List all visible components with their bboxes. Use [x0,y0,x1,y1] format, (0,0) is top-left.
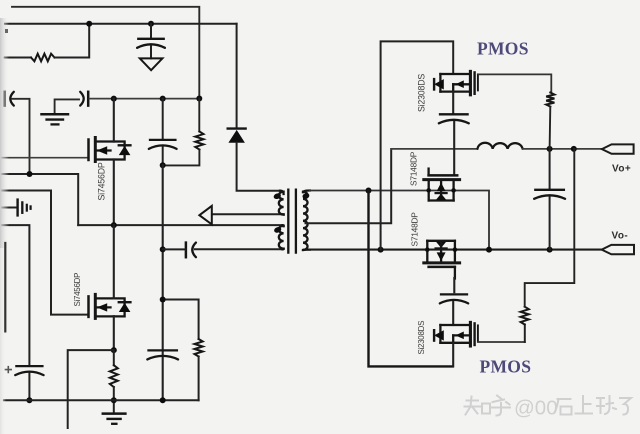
wire bottom rail y=400 from left edge to x=198.6 [4,399,199,401]
wire output y=149 from riser to inductor [391,148,477,150]
node junction top-rail/R2 on y=98.7 rail [196,96,202,102]
transformer T1 phase dot W2 [273,226,282,234]
resistor R1 horizontal [31,54,55,62]
svg-text:PMOS: PMOS [480,357,532,377]
node junction R6-feed on Vo+ rail [571,146,577,152]
wire C1 top lead [150,24,152,38]
wire R3 branch: from node (162.7,299.5) right then down [163,300,199,340]
svg-text:@00: @00 [514,397,558,420]
wire from D1 down to corner then right to transformer W1 top [237,143,280,191]
node junction R4 on bottom rail [111,397,117,403]
svg-text:Vo-: Vo- [612,231,629,242]
wire from node (113.8,350) left and down x=67.7 crossing bottom rail [68,350,114,428]
wire R3 bottom lead down to bottom rail corner [198,357,200,401]
wire Q5 source stem down to C6a [452,92,454,113]
wire left stub to resistor R1 [5,57,31,59]
wire Q5 gate lead right then down to R5 [479,74,552,92]
wire left-edge cut vertical segment [4,243,6,331]
capacitor C6a [440,113,468,115]
wire C7 bottom lead to bottom rail [28,374,30,401]
node junction x380 riser on bottom rail [378,247,384,253]
resistor R6 vertical [521,307,529,325]
wire center tap y=223.3 to riser x=391.2 [306,149,392,223]
wire mid rail x=162.7 from y=165.3 down to y=400 [162,165,164,400]
diode D1 cathode bar [228,127,246,129]
svg-text:Si7456DP: Si7456DP [97,162,107,200]
capacitor C6b [441,293,467,295]
node junction mid-rail on bottom rail [160,397,166,403]
plus mark for C7 [5,367,11,373]
capacitor C9 output filter: top lead [549,149,551,188]
wire VCC rail y=24 from left edge to diode column x=236.6 [5,23,237,25]
wire y=225 stub from left edge to corner (29.5,225) then down to C7 [2,225,29,364]
wire Q2 drain stem up to phase node [113,225,115,298]
capacitor C9 bottom lead to Vo- rail [549,197,551,249]
capacitor C9 output filter [535,189,564,191]
svg-text:S7148DP: S7148DP [410,212,420,247]
resistor R4 vertical [110,365,118,387]
wire C1 bottom lead [150,46,152,58]
svg-text:S7148DP: S7148DP [409,151,419,186]
wire R4 bottom lead to bottom rail and ground stem [113,387,115,413]
wire R6 bottom lead [524,325,526,343]
capacitor C7 electrolytic [16,365,42,367]
wire y=174 from left edge through node to corner (78.2,174) down to (78.2,225) [2,174,78,225]
node junction C7 on bottom rail [26,397,32,403]
wire phase node y=225.1 from (78.2,225) to transformer winding W2 [78,224,282,226]
node junction C9/R5 on Vo+ rail [547,146,553,152]
node junction Q3 left leg [426,188,431,193]
node junction x489 on bottom rail [486,247,492,253]
capacitor C8 on mid rail [149,349,177,351]
node junction secondary-top / x368 riser [366,188,372,194]
capacitor C2 left-edge series cap (bar+arc) [3,92,6,106]
capacitor C5 series cap on W2 return (bar+arc) [185,243,188,258]
capacitor C4 [150,139,175,141]
svg-text:Si2308DS: Si2308DS [417,321,426,355]
transformer T1 phase dot W1 [273,192,282,200]
svg-text:Si7456DP: Si7456DP [73,273,82,307]
wire Q1 drain stem up to y=98.7 rail [113,99,115,142]
node junction (29.5,174) [27,171,33,177]
node junction Q4 right leg [453,247,458,252]
transformer T1 phase dot WS [302,192,310,199]
small mark left edge [5,29,8,33]
wire from mid-rail node to C5 [163,248,186,250]
left edge scan artifact band [0,18,9,248]
transistor Q5 Si2308DS top-right MOSFET [440,73,470,75]
svg-text:PMOS: PMOS [477,39,529,59]
wire Q1 source stem down to phase node y=225 [113,160,115,226]
resistor R2 vertical [195,132,203,150]
transformer T1 primary winding W2 [283,225,284,226]
wire R6 top lead then right and up x=574 to Vo+ rail (crossing Vo- rail) [525,149,575,307]
node junction C1 branch on VCC rail [148,21,154,27]
wire Q6 source stem down to y=366.4 [452,343,454,367]
wire from C5 to transformer W2 bottom [195,248,283,250]
wire Q2 source stem down to node (113.8,350) [113,316,115,350]
wire W1 bottom exit to arrow shaft [212,213,283,215]
resistor R5 vertical [546,93,554,107]
wire C6a bottom to Q3 gate (crossing output wire) [453,122,455,175]
wire diode column from VCC rail down [236,24,238,129]
terminal Vo- flag [602,245,634,254]
node junction C5 branch on mid rail [160,246,166,252]
wire R4 top lead [113,350,115,365]
wire C4 top lead from y=98.7 rail [162,99,164,140]
node junction Q2 source [111,347,117,353]
node junction Q3 right leg [451,188,456,193]
transistor Q4 S7148DP lower synchronous MOSFET [427,240,455,242]
terminal Vo+ flag [602,144,634,153]
wire R2 bottom lead then left to node (162.7,165.3) [163,150,200,166]
ground GND3 right-pointing signal ground at left edge [2,207,16,209]
node junction C9 bottom on bottom rail [547,247,553,253]
node junction Q1 drain on y=98.7 rail [111,96,117,102]
wire node rail y=98.7 from C3 to x=199.3 [90,98,200,100]
node junction C4 branch on y=98.7 rail [160,96,166,102]
wire long vertical x=368.5 down to y=366.4 then right to Q6 source [369,191,453,367]
arrow open arrowhead pointing left (to PWM) [199,206,211,225]
ground GND4 earth symbol below R4 [103,412,126,415]
wire from C2 right to x=29.5 then down to node (29.5,174) [12,99,30,174]
ground GND1 open triangle below C1 [140,58,163,70]
wire secondary top y=190.5 to Q3 and corner down x=489 [310,191,489,250]
node junction C4/R2 on mid rail [160,162,166,168]
wire R2 top lead from node (199.3,98.5) [198,99,200,132]
transistor Q3 S7148DP upper synchronous MOSFET [427,169,429,176]
transistor Q2 Si7456DP lower-left MOSFET [87,296,90,317]
wire y=41.5 top-right: riser x=380.5 from bottom rail up, right to Q5 drain stem [381,41,454,249]
resistor R3 vertical [195,339,203,357]
wire output y=149 from inductor to Vo+ terminal [523,148,602,150]
wire C4 bottom lead to node (162.7,165.3) [162,147,164,165]
ground GND2 earth symbol with lead up to C3 left plate [55,99,79,113]
node junction R3 branch on mid rail [160,297,166,303]
wire Q4 gate stem down to C6b [453,278,455,292]
wire R5 bottom lead down to Vo+ rail [549,107,552,149]
transformer T1 core lines [287,190,289,253]
node junction R1 riser on VCC rail [86,21,92,27]
capacitor C1 [138,38,163,40]
transistor Q1 Si7456DP upper-left MOSFET [87,140,90,161]
wire top rail from (12,7) right to x=199 then down to node at y=98.4 [12,7,199,99]
node junction Q1-source/Q2-drain on phase wire [111,222,117,228]
capacitor C3 series cap (arc+bar) [80,92,84,106]
svg-text:Si2308DS: Si2308DS [417,74,427,112]
transformer T1 secondary winding WS [303,191,310,193]
wire secondary bottom rail y=249.6 to Vo- terminal [310,249,602,251]
wire Q6 gate lead right to R6 column [478,341,525,343]
wire Q1 gate lead from left edge [2,157,89,159]
node junction Q4 left leg [425,247,430,252]
transformer T1 primary winding W1 [280,191,284,194]
svg-text:Vo+: Vo+ [612,164,631,175]
wire from R1 right end up to VCC rail [55,24,90,58]
watermark Zhihu @00后上班了 [465,396,632,420]
inductor L1 coil [478,143,523,149]
wire C6b bottom to Q6 drain [452,302,454,325]
wire y=190.5 gate feed from left edge, down x=51, right to Q2 gate [2,191,89,315]
diode D1 triangle [228,130,245,143]
transistor Q6 Si2308DS bottom-right MOSFET [440,324,470,326]
